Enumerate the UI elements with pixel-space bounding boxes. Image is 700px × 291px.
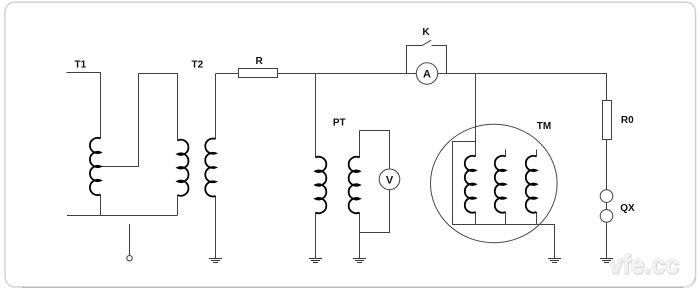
svg-text:T1: T1 (75, 60, 87, 71)
svg-text:vfe.cc: vfe.cc (608, 249, 679, 279)
svg-text:A: A (423, 68, 431, 80)
svg-text:R0: R0 (621, 115, 634, 126)
svg-text:K: K (422, 27, 430, 38)
svg-text:T2: T2 (192, 60, 204, 71)
svg-text:PT: PT (333, 118, 346, 129)
svg-text:R: R (256, 56, 264, 67)
svg-text:QX: QX (620, 203, 635, 214)
svg-text:TM: TM (537, 121, 551, 132)
svg-text:V: V (386, 174, 394, 186)
